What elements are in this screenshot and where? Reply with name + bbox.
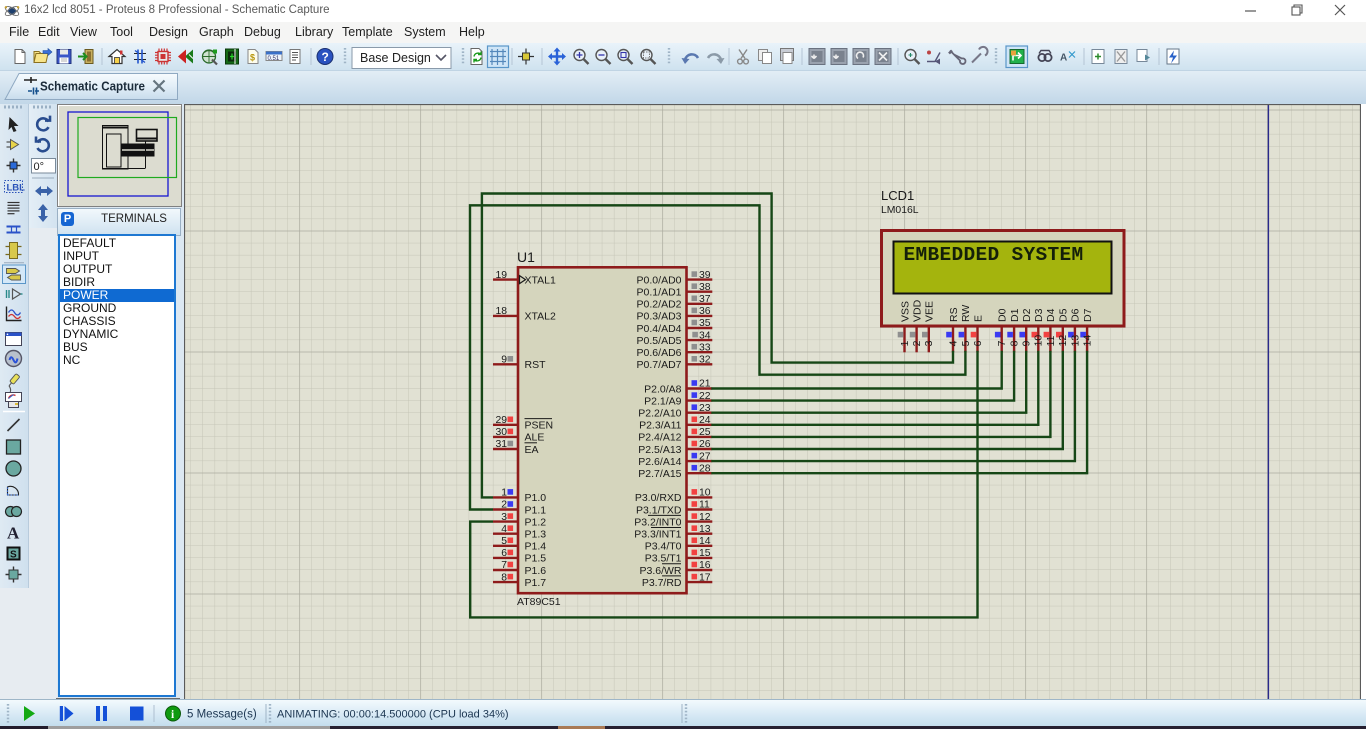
svg-text:3: 3	[501, 512, 507, 523]
svg-text:17: 17	[699, 572, 711, 583]
wire P2.6 to LCD D6	[711, 351, 1075, 461]
svg-text:P1.7: P1.7	[525, 577, 547, 589]
LCD pin 5 RW	[959, 305, 973, 353]
LCD pin 14 D7	[1080, 308, 1094, 352]
svg-text:LM016L: LM016L	[881, 205, 919, 216]
svg-text:22: 22	[699, 391, 711, 402]
svg-text:?: ?	[322, 50, 329, 64]
svg-text:P3.3/INT1: P3.3/INT1	[634, 529, 681, 541]
svg-text:Schematic Capture: Schematic Capture	[40, 80, 145, 94]
svg-text:A: A	[1060, 53, 1067, 64]
svg-text:P3.6/WR: P3.6/WR	[639, 565, 681, 577]
svg-text:0°: 0°	[34, 161, 45, 173]
svg-text:D2: D2	[1021, 308, 1033, 322]
LCD pin 13 D6	[1068, 308, 1082, 352]
pin 37 P0.2/AD2	[637, 294, 713, 311]
pin 8 P1.7	[493, 572, 546, 589]
microcontroller U1 (AT89C51)	[517, 249, 687, 608]
svg-text:EMBEDDED SYSTEM: EMBEDDED SYSTEM	[904, 244, 1084, 266]
svg-text:P2.7/A15: P2.7/A15	[638, 468, 681, 480]
svg-text:34: 34	[699, 330, 711, 341]
svg-text:7: 7	[501, 560, 507, 571]
svg-text:P0.2/AD2: P0.2/AD2	[637, 299, 682, 311]
svg-text:8: 8	[1010, 340, 1021, 346]
pin 21 P2.0/A8	[644, 379, 712, 396]
svg-text:11: 11	[1046, 335, 1057, 346]
svg-text:15: 15	[699, 548, 711, 559]
wire P2.0 to LCD D0	[711, 351, 1001, 389]
LCD pin 4 RS	[946, 307, 960, 352]
svg-text:$: $	[250, 53, 255, 63]
window title bar	[0, 0, 1366, 22]
svg-text:P0.3/AD3: P0.3/AD3	[637, 311, 682, 323]
svg-text:VEE: VEE	[924, 301, 936, 322]
pin 11 P3.1/TXD	[636, 500, 712, 517]
svg-text:7: 7	[997, 340, 1008, 346]
svg-text:24: 24	[699, 415, 711, 426]
LCD pin 10 D3	[1032, 308, 1046, 352]
svg-text:5 Message(s): 5 Message(s)	[187, 709, 257, 721]
svg-text:2: 2	[912, 340, 923, 346]
pin 36 P0.3/AD3	[637, 306, 713, 323]
svg-text:37: 37	[699, 294, 711, 305]
svg-text:P2.0/A8: P2.0/A8	[644, 383, 682, 395]
svg-text:LCD1: LCD1	[881, 188, 914, 203]
svg-text:RST: RST	[525, 359, 547, 371]
wire P1.0 to LCD RS	[482, 194, 953, 498]
svg-text:13: 13	[699, 524, 711, 535]
pin 24 P2.3/A11	[639, 415, 712, 432]
svg-text:21: 21	[699, 379, 711, 390]
svg-text:6: 6	[501, 548, 507, 559]
LCD pin 7 D0	[995, 308, 1009, 352]
svg-text:P1.1: P1.1	[525, 504, 547, 516]
svg-text:39: 39	[699, 270, 711, 281]
svg-text:27: 27	[699, 451, 711, 462]
svg-text:18: 18	[495, 306, 507, 317]
svg-text:31: 31	[495, 439, 507, 450]
svg-text:XTAL1: XTAL1	[525, 274, 556, 286]
svg-text:D7: D7	[1082, 308, 1094, 322]
pin 15 P3.5/T1	[645, 548, 713, 565]
svg-text:AT89C51: AT89C51	[517, 596, 561, 608]
pin 39 P0.0/AD0	[637, 270, 713, 287]
svg-text:4: 4	[948, 340, 959, 346]
svg-text:11: 11	[699, 500, 710, 511]
pin 1 P1.0	[493, 488, 546, 505]
pin 22 P2.1/A9	[644, 391, 712, 408]
svg-text:P0.0/AD0: P0.0/AD0	[637, 274, 682, 286]
svg-text:D1: D1	[1009, 308, 1021, 322]
LCD LCD1 (LM016L)	[881, 188, 1124, 326]
pin 2 P1.1	[493, 500, 546, 517]
svg-text:P0.6/AD6: P0.6/AD6	[637, 347, 682, 359]
sheet border	[1267, 104, 1269, 699]
svg-text:P2.4/A12: P2.4/A12	[638, 432, 681, 444]
svg-text:RS: RS	[948, 307, 960, 322]
LCD pin 12 D5	[1056, 308, 1070, 352]
svg-text:14: 14	[1083, 335, 1094, 347]
svg-text:5: 5	[961, 340, 972, 346]
svg-text:1: 1	[900, 340, 911, 346]
LCD pin 1 VSS	[898, 301, 912, 352]
wire P2.2 to LCD D2	[711, 351, 1026, 413]
svg-text:VSS: VSS	[899, 301, 911, 322]
svg-text:26: 26	[699, 439, 711, 450]
pin 10 P3.0/RXD	[635, 488, 712, 505]
svg-text:P3.7/RD: P3.7/RD	[642, 577, 682, 589]
svg-text:Base Design: Base Design	[360, 51, 431, 65]
LCD pin 3 VEE	[922, 301, 936, 352]
svg-text:P0.5/AD5: P0.5/AD5	[637, 335, 682, 347]
wire P2.3 to LCD D3	[711, 351, 1038, 425]
pin 34 P0.5/AD5	[637, 330, 713, 347]
svg-text:0.51: 0.51	[268, 56, 280, 62]
svg-text:23: 23	[699, 403, 711, 414]
svg-text:XTAL2: XTAL2	[525, 311, 556, 323]
svg-text:25: 25	[699, 427, 711, 438]
wire P2.7 to LCD D7	[711, 351, 1087, 473]
LCD screen	[894, 242, 1112, 294]
svg-text:PSEN: PSEN	[525, 420, 554, 432]
svg-text:9: 9	[1022, 340, 1033, 346]
pin 7 P1.6	[493, 560, 546, 577]
svg-text:P0.4/AD4: P0.4/AD4	[637, 323, 682, 335]
svg-text:U1: U1	[517, 249, 535, 265]
pin 30 ALE	[493, 427, 544, 444]
svg-text:P1.2: P1.2	[525, 516, 547, 528]
pin 23 P2.2/A10	[638, 403, 712, 420]
wire P1.2 to LCD E	[470, 351, 977, 618]
svg-text:P0.1/AD1: P0.1/AD1	[637, 287, 682, 299]
svg-text:P1.4: P1.4	[525, 541, 547, 553]
svg-text:10: 10	[1034, 335, 1045, 347]
pin 18 XTAL2	[493, 306, 556, 323]
svg-text:16: 16	[699, 560, 711, 571]
svg-text:3: 3	[924, 340, 935, 346]
svg-text:8: 8	[501, 572, 507, 583]
svg-text:D3: D3	[1033, 308, 1045, 322]
pin 31 EA	[493, 439, 539, 456]
pin 19 XTAL1	[493, 270, 556, 287]
svg-text:9: 9	[501, 355, 507, 366]
svg-text:P2.3/A11: P2.3/A11	[639, 420, 682, 432]
svg-text:P1.0: P1.0	[525, 492, 547, 504]
svg-text:1: 1	[501, 488, 507, 499]
svg-text:P3.1/TXD: P3.1/TXD	[636, 504, 682, 516]
svg-text:P3.5/T1: P3.5/T1	[645, 553, 682, 565]
svg-text:33: 33	[699, 342, 711, 353]
svg-text:P3.4/T0: P3.4/T0	[645, 541, 682, 553]
svg-text:D5: D5	[1058, 308, 1070, 322]
pin 5 P1.4	[493, 536, 546, 553]
svg-text:ALE: ALE	[525, 432, 545, 444]
LCD pin 6 E	[971, 315, 985, 352]
pin 35 P0.4/AD4	[637, 318, 713, 335]
wire P2.5 to LCD D5	[711, 351, 1063, 449]
left toolbars	[0, 104, 57, 699]
svg-text:P2.6/A14: P2.6/A14	[638, 456, 681, 468]
pin 3 P1.2	[493, 512, 546, 529]
pin 13 P3.3/INT1	[634, 524, 712, 541]
pin 12 P3.2/INT0	[634, 512, 712, 529]
svg-text:ANIMATING: 00:00:14.500000 (CP: ANIMATING: 00:00:14.500000 (CPU load 34%…	[277, 709, 509, 721]
svg-text:D4: D4	[1045, 308, 1057, 322]
pin 33 P0.6/AD6	[637, 342, 713, 359]
viewport frame	[185, 105, 1361, 700]
wire P1.1 to LCD RW	[470, 205, 965, 509]
pin 27 P2.6/A14	[638, 451, 712, 468]
svg-text:32: 32	[699, 355, 711, 366]
svg-text:10: 10	[699, 488, 711, 499]
wire P2.1 to LCD D1	[711, 351, 1014, 401]
LCD pin 11 D4	[1044, 308, 1058, 352]
pin 25 P2.4/A12	[638, 427, 712, 444]
svg-text:P1.3: P1.3	[525, 529, 547, 541]
pin 6 P1.5	[493, 548, 546, 565]
svg-text:38: 38	[699, 282, 711, 293]
pin 17 P3.7/RD	[642, 572, 712, 589]
svg-text:P2.5/A13: P2.5/A13	[638, 444, 681, 456]
pin 9 RST	[493, 355, 546, 372]
svg-text:2: 2	[501, 500, 507, 511]
svg-text:13: 13	[1070, 335, 1081, 347]
svg-text:19: 19	[495, 270, 507, 281]
svg-text:5: 5	[501, 536, 507, 547]
wire P2.4 to LCD D4	[711, 351, 1050, 437]
pin 14 P3.4/T0	[645, 536, 713, 553]
svg-text:E: E	[972, 315, 984, 322]
status bar	[56, 698, 180, 700]
svg-text:P2.2/A10: P2.2/A10	[638, 408, 681, 420]
pin 4 P1.3	[493, 524, 546, 541]
menu bar	[0, 22, 1366, 43]
svg-text:D0: D0	[997, 308, 1009, 322]
svg-text:29: 29	[495, 415, 507, 426]
svg-text:P3.0/RXD: P3.0/RXD	[635, 492, 682, 504]
svg-text:P0.7/AD7: P0.7/AD7	[637, 359, 682, 371]
svg-text:S: S	[10, 550, 17, 561]
pin 29 PSEN	[493, 415, 553, 432]
svg-text:35: 35	[699, 318, 711, 329]
svg-text:EA: EA	[525, 444, 539, 456]
pin 26 P2.5/A13	[638, 439, 712, 456]
svg-text:4: 4	[501, 524, 507, 535]
pin 38 P0.1/AD1	[637, 282, 713, 299]
schematic area	[0, 70, 1366, 104]
svg-text:P1.5: P1.5	[525, 553, 547, 565]
svg-text:14: 14	[699, 536, 711, 547]
svg-text:A: A	[7, 524, 20, 543]
pin 28 P2.7/A15	[638, 463, 712, 480]
LCD pin 9 D2	[1019, 308, 1033, 352]
svg-text:12: 12	[699, 512, 711, 523]
svg-text:LBL: LBL	[7, 183, 26, 194]
svg-text:28: 28	[699, 463, 711, 474]
pin 16 P3.6/WR	[639, 560, 712, 577]
svg-text:6: 6	[973, 340, 984, 346]
svg-text:36: 36	[699, 306, 711, 317]
svg-text:P3.2/INT0: P3.2/INT0	[634, 516, 681, 528]
LCD pin 2 VDD	[910, 299, 924, 352]
svg-text:VDD: VDD	[911, 299, 923, 322]
svg-text:12: 12	[1058, 335, 1069, 347]
svg-text:30: 30	[495, 427, 507, 438]
LCD pin 8 D1	[1007, 308, 1021, 352]
pin 32 P0.7/AD7	[637, 355, 713, 372]
svg-text:D6: D6	[1070, 308, 1082, 322]
svg-text:P1.6: P1.6	[525, 565, 547, 577]
svg-text:RW: RW	[960, 305, 972, 322]
svg-text:P2.1/A9: P2.1/A9	[644, 395, 682, 407]
